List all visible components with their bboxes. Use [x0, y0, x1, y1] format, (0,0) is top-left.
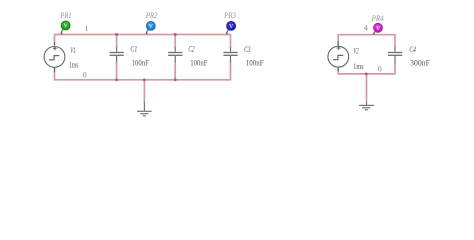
probe PR1: [60, 21, 70, 34]
svg-text:C4: C4: [409, 45, 416, 54]
wire C3 branch vertical: [230, 34, 232, 81]
wire ground branch right vertical: [366, 74, 368, 103]
capacitor C2: [168, 47, 182, 62]
junction dot net1 at C1: [115, 33, 118, 36]
probe PR2: [145, 21, 155, 34]
probe PR4: [373, 23, 383, 34]
ground left: [137, 102, 152, 116]
svg-text:C2: C2: [188, 45, 194, 54]
wire net1 top horizontal: [55, 34, 231, 36]
junction dot net0 at C1: [115, 78, 118, 81]
svg-text:V1: V1: [70, 46, 75, 55]
wire C2 branch vertical: [174, 35, 176, 80]
capacitor C3: [223, 47, 237, 62]
voltage source V2: [328, 41, 349, 71]
wire V2 bottom vertical: [337, 67, 339, 75]
svg-text:1: 1: [84, 24, 88, 33]
svg-text:0: 0: [83, 70, 87, 79]
svg-text:C1: C1: [130, 45, 137, 54]
wire net4 top horizontal: [338, 34, 395, 36]
svg-text:PR1: PR1: [60, 11, 72, 20]
svg-text:100nF: 100nF: [246, 59, 264, 68]
wire V1 bottom vertical: [54, 67, 56, 80]
svg-text:PR3: PR3: [223, 11, 235, 20]
svg-text:PR4: PR4: [371, 14, 384, 23]
svg-text:C3: C3: [244, 45, 251, 54]
capacitor C1: [110, 47, 124, 62]
junction dot net0 at C2: [174, 78, 177, 81]
voltage source V1: [44, 42, 65, 72]
svg-text:100nF: 100nF: [132, 59, 150, 68]
wire V1 top vertical: [54, 34, 56, 46]
svg-text:100nF: 100nF: [190, 59, 208, 68]
svg-text:300nF: 300nF: [410, 59, 430, 68]
junction dot net0 right at ground: [365, 72, 368, 75]
svg-text:1ms: 1ms: [69, 61, 78, 70]
ground right: [359, 103, 374, 110]
wire C4 branch vertical: [394, 34, 396, 74]
svg-text:V2: V2: [353, 46, 358, 55]
wire net0 right bottom horizontal: [338, 73, 395, 75]
wire ground branch left vertical: [143, 80, 145, 103]
svg-text:V: V: [229, 24, 234, 30]
svg-text:1ms: 1ms: [353, 62, 363, 71]
svg-text:4: 4: [364, 24, 368, 33]
wire V2 top vertical: [337, 34, 339, 46]
svg-text:V: V: [376, 26, 381, 32]
svg-text:V: V: [149, 24, 154, 30]
svg-text:V: V: [63, 24, 68, 30]
svg-text:0: 0: [378, 64, 382, 73]
junction dot net0 at ground: [143, 78, 146, 81]
junction dot net1 at C2: [174, 33, 177, 36]
probe PR3: [226, 21, 236, 34]
wire net0 bottom horizontal: [55, 79, 231, 81]
capacitor C4: [388, 47, 402, 62]
wire C1 branch vertical: [116, 35, 118, 80]
svg-text:PR2: PR2: [145, 11, 158, 20]
